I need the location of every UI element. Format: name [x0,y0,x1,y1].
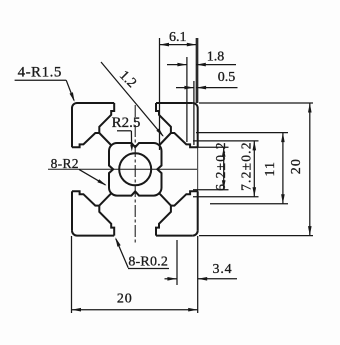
svg-text:11: 11 [263,161,278,177]
svg-text:8-R2: 8-R2 [51,156,79,171]
svg-text:8-R0.2: 8-R0.2 [128,255,168,270]
svg-text:1.8: 1.8 [207,50,225,65]
svg-text:20: 20 [289,158,304,174]
svg-text:4-R1.5: 4-R1.5 [18,65,62,81]
svg-text:20: 20 [117,292,133,307]
svg-text:R2.5: R2.5 [112,115,141,131]
svg-text:6.2±0.2: 6.2±0.2 [213,141,228,191]
svg-text:7.2±0.2: 7.2±0.2 [239,141,254,191]
svg-text:3.4: 3.4 [213,262,233,277]
svg-text:0.5: 0.5 [218,70,236,85]
svg-text:6.1: 6.1 [169,30,187,45]
